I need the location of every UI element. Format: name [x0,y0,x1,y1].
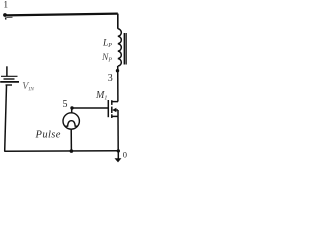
bulk arrow [112,108,116,113]
inductor L_P (primary coil) [118,29,122,66]
battery V_in top lead [6,66,8,76]
wire right rail below coil to drain [117,66,119,102]
wire bottom rail [4,150,118,153]
wire stub below node 1 (faded rail) [5,17,7,19]
junction at ground node [117,149,120,152]
wire top rail from node 1 to right corner [5,14,118,16]
channel segment middle [111,107,113,113]
svg-text:1: 1 [4,0,9,10]
svg-text:5: 5 [63,99,68,110]
wire left rail battery to bottom corner [5,86,7,152]
node 3 [108,69,119,84]
transformer core bar [124,33,126,65]
node 5 [63,99,74,110]
pulse source V (circle) [63,113,79,129]
source stub [112,115,118,117]
transistor M1 (NMOS) [108,100,118,118]
wire pulse source bottom stub [70,129,72,151]
svg-text:Pulse: Pulse [35,129,61,140]
node 1 [3,0,8,17]
gate bar [107,100,109,117]
ground 0 symbol [115,151,122,162]
channel segment top [111,100,113,105]
drain stub [112,101,118,103]
svg-text:3: 3 [108,73,113,84]
wire pulse source top stub [71,108,73,113]
channel segment bottom [111,114,113,118]
junction pulse-to-bottom-rail [70,149,74,153]
wire right rail top (corner down to coil) [117,14,119,29]
bulk-to-source vertical [117,110,119,116]
wire gate lead from node 5 to gate [72,107,108,109]
wire source lead down to ground [117,116,119,151]
svg-text:0: 0 [123,150,127,160]
battery V_in plates [0,76,19,85]
